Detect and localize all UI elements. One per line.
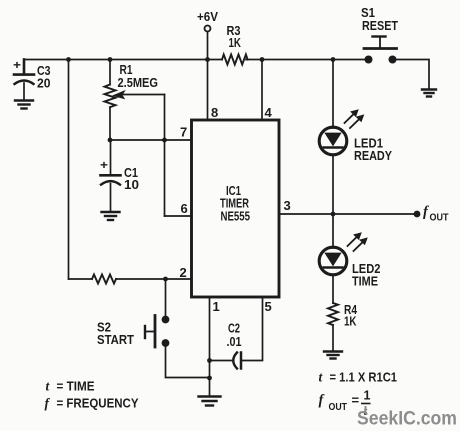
node junction +6V rail [205,57,210,62]
note t = TIME [46,379,95,394]
svg-text:6: 6 [181,201,188,216]
svg-text:5: 5 [265,299,272,314]
node junction S2 pin1 [207,376,212,381]
label fOUT at output [423,204,449,224]
node junction LED1 rail [331,57,336,62]
svg-text:3: 3 [284,198,291,213]
wire pin 6 lead [165,215,192,217]
capacitor C2 [233,353,241,369]
node junction pin7 wiper [162,138,167,143]
svg-text:= FREQUENCY: = FREQUENCY [57,396,139,411]
potentiometer R1 [105,60,116,141]
svg-text:1K: 1K [229,35,242,50]
svg-text:7: 7 [180,125,187,140]
wire S1 right contact to ground corner [394,60,429,89]
node terminal fOUT [414,211,421,218]
svg-text:= TIME: = TIME [57,379,95,394]
svg-text:2.5MEG: 2.5MEG [118,75,159,90]
wire LED1 bottom lead [332,155,334,214]
svg-text:=: = [352,393,360,408]
svg-text:READY: READY [354,149,393,163]
ground S1 [422,90,436,97]
svg-text:1: 1 [213,299,220,314]
wire R4 to ground [332,325,334,351]
formula t = 1.1 X R1C1 [319,370,398,385]
node junction pin3 LED [331,212,336,217]
LED D2 arrows [348,232,368,251]
wire pin 7 line [110,139,192,141]
svg-text:RESET: RESET [362,18,398,33]
LED D2 [319,214,347,275]
svg-text:10: 10 [124,177,139,192]
switch S2 pushbutton [145,316,169,348]
ground R4 [324,352,342,359]
svg-text:1: 1 [364,389,371,403]
wire top rail right segment [246,59,366,61]
wire pin 8 lead [207,60,209,121]
wire pin 4 lead [261,60,263,121]
svg-text:TIMER: TIMER [220,197,249,211]
resistor R3 zigzag [222,55,248,65]
LED D1 arrows [345,109,365,128]
power +6V terminal [205,26,211,32]
svg-text:4: 4 [265,105,273,120]
wire pin 1 lead down [209,297,211,396]
wire +6V lead to rail [207,32,209,60]
wire S2 bottom to pin 1 [166,345,210,378]
svg-text:8: 8 [211,105,218,120]
svg-text:+6V: +6V [197,9,218,24]
wire left vertical branch [68,60,70,280]
node junction pin4 rail [260,57,265,62]
svg-text:+: + [13,58,21,72]
wire C2 left lead [210,360,233,362]
potentiometer R1 wiper arrow [112,90,165,100]
wire wiper to pin6 vertical [164,95,166,217]
svg-text:.01: .01 [227,334,242,349]
ground C1 [102,212,120,220]
svg-text:NE555: NE555 [221,210,251,224]
wire top +V rail left segment [24,59,222,61]
svg-text:START: START [97,332,134,347]
svg-text:2: 2 [180,265,187,280]
formula fOUT = 1/t [319,389,371,419]
switch S1 pushbutton [364,37,397,64]
wire LED1 top lead [332,60,334,129]
note f = FREQUENCY [45,396,139,411]
wire LED2 to R4 [332,275,334,303]
svg-text:20: 20 [37,76,51,91]
node junction C2 pin1 [207,358,212,363]
wire C2 right lead / pin 5 [241,297,263,361]
ground pin1 [199,397,221,406]
svg-text:1K: 1K [344,314,357,329]
svg-text:+: + [100,158,108,172]
wire pin 2 line left [69,278,93,280]
node junction top-left vertical [66,57,71,62]
resistor R4 [328,303,338,325]
capacitor C1 [101,140,121,212]
svg-text:= 1.1 X R1C1: = 1.1 X R1C1 [330,370,398,385]
wire pin 2 line right [116,278,192,280]
IC U1 NE555 box [192,120,280,297]
wire S2 top lead [165,279,167,317]
wire pin 3 output line [279,213,414,215]
node junction pin2 S2 [163,277,168,282]
ground C3 [15,101,33,109]
svg-text:SeekIC.com: SeekIC.com [357,409,457,430]
node junction R1 top [108,57,113,62]
node junction pin7 R1 [108,138,113,143]
svg-text:OUT: OUT [329,402,348,413]
svg-text:OUT: OUT [430,213,449,224]
resistor unlabeled trigger series [92,275,116,284]
capacitor C3 [14,60,34,101]
LED D1 [319,127,347,155]
svg-text:TIME: TIME [352,275,378,289]
watermark SeekIC.com [357,406,457,430]
